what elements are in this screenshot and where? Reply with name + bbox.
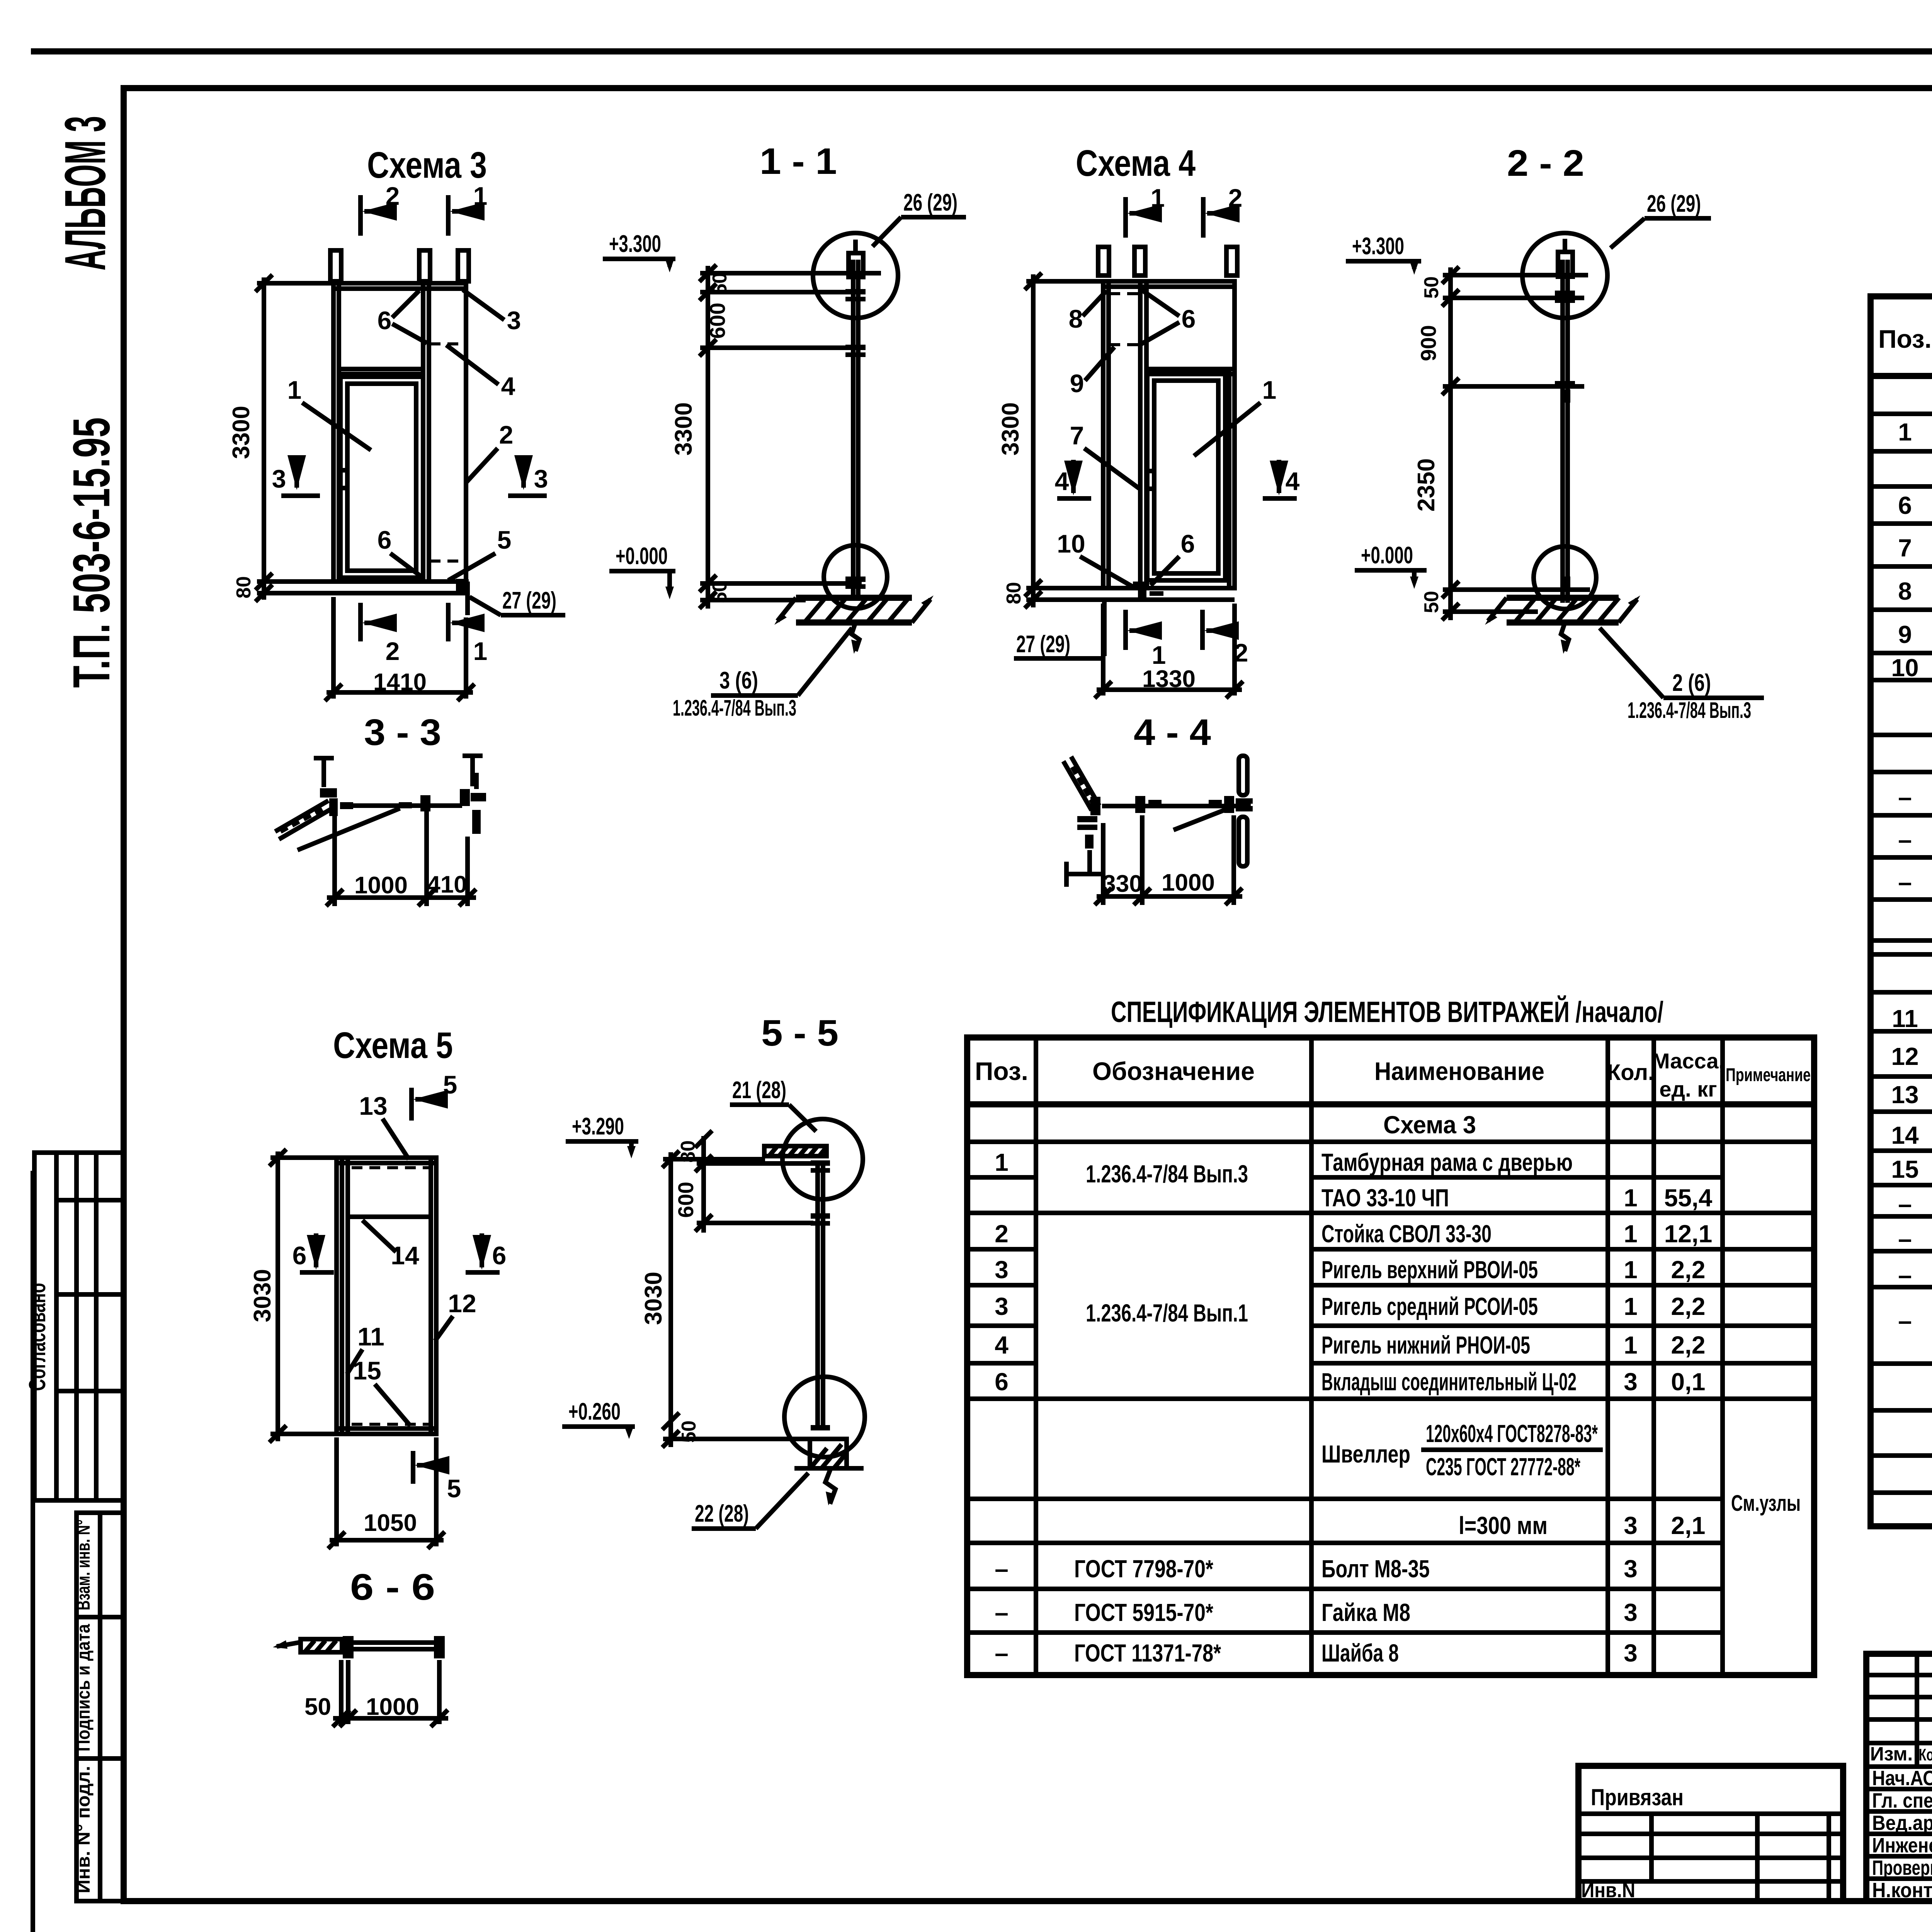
svg-text:1: 1 xyxy=(995,1148,1009,1176)
2-2 label 26 (29) xyxy=(1611,190,1711,248)
svg-text:+0.000: +0.000 xyxy=(616,543,668,570)
svg-text:330: 330 xyxy=(1102,871,1142,897)
3-3 rail line xyxy=(342,803,462,808)
Схема 4 frame outer xyxy=(1103,281,1235,588)
Схема 5 left dim 3030 xyxy=(249,1149,337,1442)
Схема 5 section mark 5 bottom xyxy=(413,1451,461,1503)
svg-text:+3.300: +3.300 xyxy=(609,231,661,257)
Схема 3 label 4 with leader xyxy=(446,345,515,400)
svg-text:80: 80 xyxy=(1003,582,1025,604)
5-5 clip mid xyxy=(811,1213,830,1219)
svg-text:3: 3 xyxy=(995,1293,1009,1320)
svg-text:10: 10 xyxy=(1057,529,1085,558)
Схема 4 label 9 with leader xyxy=(1070,347,1114,398)
svg-text:6 - 6: 6 - 6 xyxy=(350,1566,435,1608)
1-1 clip bottom xyxy=(845,577,866,582)
Инв. N° подл. box xyxy=(73,1759,124,1901)
Схема 3 section mark 1 bottom xyxy=(448,603,487,665)
svg-text:–: – xyxy=(1898,1225,1912,1253)
svg-text:5 - 5: 5 - 5 xyxy=(761,1012,838,1054)
Схема 4 sill lines xyxy=(1100,586,1235,590)
Схема 3 frame outer xyxy=(333,283,466,582)
1-1 node circle top xyxy=(813,233,898,318)
svg-text:4: 4 xyxy=(1286,467,1300,495)
Схема 4 stoika double line xyxy=(1138,281,1143,588)
Схема 3 label 5 with leader xyxy=(448,526,511,580)
svg-text:Масса,: Масса, xyxy=(1652,1049,1725,1073)
4-4 rail line xyxy=(1102,804,1251,808)
2-2 node circle top xyxy=(1522,233,1607,318)
Схема 5 frame inner lines xyxy=(340,1158,344,1434)
Схема 4 section mark 2 top xyxy=(1203,184,1242,238)
1-1 dimension line xyxy=(670,265,881,609)
svg-text:Швеллер: Швеллер xyxy=(1321,1440,1410,1468)
Схема 3 anchor tab right xyxy=(458,250,469,281)
svg-text:3: 3 xyxy=(1624,1512,1638,1539)
Схема 4 label 1 with leader xyxy=(1194,376,1276,456)
svg-text:7: 7 xyxy=(1070,421,1084,450)
svg-text:2: 2 xyxy=(386,637,400,665)
1-1 mullion xyxy=(849,240,863,598)
Схема 4 section mark 1 top xyxy=(1126,184,1165,238)
svg-text:Изм.: Изм. xyxy=(1870,1743,1913,1765)
Схема 4 hidden dashed top xyxy=(1109,292,1139,295)
svg-text:2,2: 2,2 xyxy=(1671,1293,1706,1320)
middle table row lines xyxy=(967,1142,1814,1633)
svg-text:3: 3 xyxy=(1624,1555,1638,1583)
Схема 3 label 27 (29) xyxy=(469,587,565,615)
signature table header xyxy=(1870,1743,1932,1765)
Схема 5 label 15 with leader xyxy=(353,1356,410,1426)
Схема 3 label 2 with leader xyxy=(466,420,513,483)
svg-text:3 (6): 3 (6) xyxy=(719,667,758,694)
svg-text:6: 6 xyxy=(1898,492,1912,519)
svg-text:6: 6 xyxy=(492,1241,507,1270)
svg-text:50: 50 xyxy=(1420,591,1443,613)
svg-text:1.236.4-7/84 Вып.1: 1.236.4-7/84 Вып.1 xyxy=(1086,1299,1248,1327)
Схема 3 stoika double line xyxy=(421,283,425,582)
Схема 3 left dim 3300/80 xyxy=(228,275,333,602)
Схема 4 frame inner lines xyxy=(1106,281,1111,588)
svg-text:Подпись и дата: Подпись и дата xyxy=(73,1624,94,1752)
2-2 elevation +3.300 xyxy=(1346,233,1421,275)
4-4 left connector xyxy=(1077,797,1100,849)
Схема 3 bottom dim 1410 xyxy=(325,597,474,701)
Согласовано stamp grid xyxy=(24,1153,124,1500)
svg-text:0,1: 0,1 xyxy=(1671,1368,1706,1396)
svg-text:СПЕЦИФИКАЦИЯ ЭЛЕМЕНТОВ ВИТРА: СПЕЦИФИКАЦИЯ ЭЛЕМЕНТОВ ВИТРАЖЕЙ /начало/ xyxy=(1111,995,1663,1029)
svg-text:4: 4 xyxy=(501,372,515,400)
right table Уголок fraction xyxy=(1898,1295,1932,1357)
Схема 3 anchor tab left xyxy=(330,250,341,281)
svg-text:3 - 3: 3 - 3 xyxy=(364,712,441,753)
Схема 5 section mark 5 top xyxy=(412,1070,457,1121)
svg-text:+3.290: +3.290 xyxy=(572,1113,624,1140)
Схема 5 hidden dashed bottom xyxy=(352,1423,430,1426)
svg-text:50: 50 xyxy=(709,581,731,603)
Схема 3 transom xyxy=(339,367,423,371)
svg-text:2: 2 xyxy=(386,182,400,210)
svg-text:4 - 4: 4 - 4 xyxy=(1134,712,1211,753)
svg-text:–: – xyxy=(1898,783,1912,811)
svg-text:13: 13 xyxy=(1891,1081,1918,1109)
svg-text:3: 3 xyxy=(534,464,548,493)
Схема 3 anchor tab middle xyxy=(419,250,430,281)
svg-text:Наименование: Наименование xyxy=(1374,1057,1544,1085)
svg-text:Вед.арх.: Вед.арх. xyxy=(1872,1811,1932,1835)
Схема 3 label 6 bottom with leader xyxy=(378,526,421,577)
Схема 3 frame inner lines xyxy=(337,283,341,582)
Схема 5 transom xyxy=(348,1214,431,1219)
Схема 4 label 10 with leader xyxy=(1057,529,1135,588)
svg-text:1330: 1330 xyxy=(1142,666,1196,692)
svg-text:8: 8 xyxy=(1898,577,1912,605)
Схема 3 label 1 with leader xyxy=(287,376,371,450)
svg-text:Схема 5: Схема 5 xyxy=(333,1025,453,1066)
svg-text:Вкладыш соединительный Ц-02: Вкладыш соединительный Ц-02 xyxy=(1321,1368,1577,1396)
svg-text:3: 3 xyxy=(272,464,286,493)
svg-text:С235 ГОСТ 27772-88*: С235 ГОСТ 27772-88* xyxy=(1426,1453,1580,1481)
svg-text:Т.П. 503-6-15.95: Т.П. 503-6-15.95 xyxy=(62,417,121,688)
5-5 elevation +3.290 xyxy=(566,1113,638,1158)
svg-text:2,2: 2,2 xyxy=(1671,1256,1706,1284)
5-5 label 22 (28) xyxy=(692,1473,808,1529)
Схема 3 section mark 1 top xyxy=(448,182,487,236)
6-6 rail double line xyxy=(354,1640,434,1645)
Схема 4 bottom dim 1330 xyxy=(1095,604,1243,698)
4-4 nashel'nik capsule bottom xyxy=(1239,817,1247,866)
svg-text:–: – xyxy=(995,1639,1009,1667)
svg-text:1: 1 xyxy=(1624,1184,1638,1212)
svg-text:АЛЬБОМ 3: АЛЬБОМ 3 xyxy=(53,116,117,270)
svg-text:2: 2 xyxy=(499,420,514,449)
svg-text:3300: 3300 xyxy=(670,402,697,456)
svg-text:ГОСТ 7798-70*: ГОСТ 7798-70* xyxy=(1074,1555,1213,1583)
svg-text:55,4: 55,4 xyxy=(1664,1184,1713,1212)
3-3 leader xyxy=(298,808,400,850)
Схема 4 transom xyxy=(1146,367,1235,371)
svg-text:l=300 мм: l=300 мм xyxy=(1459,1512,1548,1539)
svg-text:1: 1 xyxy=(1262,376,1277,404)
Схема 5 hidden dashed top xyxy=(352,1166,430,1169)
5-5 top channel hatched xyxy=(764,1146,827,1156)
svg-text:Н.контр.: Н.контр. xyxy=(1872,1879,1932,1902)
svg-text:13: 13 xyxy=(359,1092,387,1120)
svg-text:3: 3 xyxy=(1624,1639,1638,1667)
svg-text:120x60x4 ГОСТ8278-83*: 120x60x4 ГОСТ8278-83* xyxy=(1426,1420,1598,1447)
svg-text:+0.000: +0.000 xyxy=(1361,542,1413,569)
Схема 3 section mark 2 top xyxy=(361,182,400,236)
svg-text:Согласовано: Согласовано xyxy=(24,1283,50,1391)
svg-text:9: 9 xyxy=(1898,621,1912,648)
3-3 middle clip xyxy=(399,795,430,811)
svg-text:5: 5 xyxy=(443,1070,457,1099)
4-4 nashel'nik capsule top xyxy=(1239,756,1247,795)
Схема 3 view mark 3 right xyxy=(508,458,548,496)
svg-text:12,1: 12,1 xyxy=(1664,1220,1713,1248)
svg-text:8: 8 xyxy=(1069,304,1083,333)
svg-text:410: 410 xyxy=(427,871,467,898)
Схема 5 label 12 with leader xyxy=(435,1289,476,1341)
svg-text:2 - 2: 2 - 2 xyxy=(1507,143,1584,184)
Схема 4 label 7 with leader xyxy=(1070,421,1139,488)
svg-text:1: 1 xyxy=(1624,1293,1638,1320)
Схема 4 label 27 (29) xyxy=(1014,631,1105,658)
svg-text:26 (29): 26 (29) xyxy=(903,189,957,216)
svg-text:6: 6 xyxy=(1181,529,1195,558)
5-5 label 21 (28) xyxy=(730,1077,816,1131)
svg-text:–: – xyxy=(1898,1190,1912,1218)
svg-text:Ригель верхний РВОИ-05: Ригель верхний РВОИ-05 xyxy=(1321,1256,1538,1284)
Схема 4 door handle xyxy=(1147,471,1154,489)
Схема 3 hidden dashed top xyxy=(430,342,461,345)
svg-text:–: – xyxy=(995,1599,1009,1626)
svg-text:Кол.уч: Кол.уч xyxy=(1919,1745,1932,1764)
svg-text:1.236.4-7/84 Вып.3: 1.236.4-7/84 Вып.3 xyxy=(1086,1160,1248,1188)
Схема 3 hidden dashed bottom xyxy=(430,560,461,563)
svg-text:5: 5 xyxy=(447,1474,461,1503)
2-2 label 2 (6) xyxy=(1600,628,1764,723)
svg-text:Схема 3: Схема 3 xyxy=(367,145,487,186)
middle table Швеллер fraction xyxy=(1321,1420,1603,1481)
svg-text:ТАО 33-10 ЧП: ТАО 33-10 ЧП xyxy=(1321,1184,1449,1212)
svg-text:27 (29): 27 (29) xyxy=(502,587,556,614)
svg-text:80: 80 xyxy=(677,1140,699,1163)
svg-text:600: 600 xyxy=(673,1182,698,1218)
svg-text:1: 1 xyxy=(1624,1220,1638,1248)
right table row lines schema4 xyxy=(1871,414,1932,954)
6-6 right clip xyxy=(434,1636,445,1658)
5-5 secondary dim 80 600 xyxy=(673,1131,813,1233)
Схема 5 bottom dim 1050 xyxy=(328,1437,445,1549)
svg-text:6: 6 xyxy=(995,1368,1009,1396)
right table outer border xyxy=(1871,296,1932,1526)
outer sheet left line (lower part) xyxy=(31,1171,35,1932)
svg-text:1000: 1000 xyxy=(354,872,408,899)
svg-text:14: 14 xyxy=(1891,1121,1919,1149)
svg-text:1: 1 xyxy=(1624,1331,1638,1359)
svg-text:Обозначение: Обозначение xyxy=(1092,1057,1255,1085)
svg-text:Ригель средний РСОИ-05: Ригель средний РСОИ-05 xyxy=(1321,1293,1538,1320)
5-5 main dim 3030 xyxy=(640,1151,811,1447)
svg-text:6: 6 xyxy=(378,306,392,335)
5-5 clip top xyxy=(811,1160,830,1166)
Схема 4 label 6 bottom with leader xyxy=(1151,529,1195,585)
Схема 5 label 11 with leader xyxy=(347,1322,384,1374)
svg-text:1: 1 xyxy=(473,182,488,210)
2-2 clip bottom xyxy=(1560,577,1570,590)
svg-text:См.узлы: См.узлы xyxy=(1731,1491,1801,1516)
svg-text:900: 900 xyxy=(1416,325,1440,361)
4-4 dims 330 1000 xyxy=(1095,815,1242,905)
svg-text:1: 1 xyxy=(287,376,302,404)
2-2 clip at 50 xyxy=(1555,291,1575,296)
1-1 node circle bottom xyxy=(824,545,887,609)
Схема 4 view mark 4 left xyxy=(1055,460,1091,498)
5-5 elevation +0.260 xyxy=(562,1398,635,1439)
svg-text:3300: 3300 xyxy=(228,406,255,459)
svg-text:2: 2 xyxy=(995,1220,1009,1248)
svg-text:5: 5 xyxy=(497,526,512,554)
5-5 foundation hatched xyxy=(794,1439,864,1505)
6-6 dims 50 1000 xyxy=(304,1660,448,1727)
svg-text:3: 3 xyxy=(507,306,521,335)
svg-text:–: – xyxy=(1898,1307,1912,1335)
svg-text:22 (28): 22 (28) xyxy=(695,1500,749,1527)
svg-text:50: 50 xyxy=(304,1694,331,1720)
svg-text:1 - 1: 1 - 1 xyxy=(760,141,837,182)
svg-text:2: 2 xyxy=(1234,638,1248,667)
svg-text:11: 11 xyxy=(1892,1005,1918,1032)
svg-text:3: 3 xyxy=(995,1256,1009,1284)
svg-text:6: 6 xyxy=(293,1241,307,1270)
1-1 clip at 600 xyxy=(845,345,866,350)
svg-text:14: 14 xyxy=(391,1241,419,1270)
svg-text:Нач.АСО: Нач.АСО xyxy=(1872,1767,1932,1790)
5-5 clip bottom xyxy=(811,1425,830,1430)
svg-text:1.236.4-7/84 Вып.3: 1.236.4-7/84 Вып.3 xyxy=(673,696,796,721)
svg-text:26 (29): 26 (29) xyxy=(1647,190,1701,217)
Схема 4 label 6 with leaders xyxy=(1141,290,1196,344)
right table row lines schema5 xyxy=(1871,992,1932,1493)
middle table column lines xyxy=(1036,1037,1723,1675)
6-6 left clip xyxy=(343,1636,354,1658)
svg-text:ед. кг: ед. кг xyxy=(1659,1077,1717,1101)
svg-text:1: 1 xyxy=(473,637,488,665)
svg-text:1000: 1000 xyxy=(366,1694,419,1720)
svg-text:2350: 2350 xyxy=(1413,458,1440,512)
middle table outer border xyxy=(967,1037,1814,1675)
1-1 foundation hatched xyxy=(774,595,934,654)
Схема 5 label 14 with leader xyxy=(362,1220,419,1270)
svg-text:Ригель нижний РНОИ-05: Ригель нижний РНОИ-05 xyxy=(1321,1331,1530,1359)
Схема 4 left dim 3300/80 xyxy=(997,273,1103,608)
svg-text:2,2: 2,2 xyxy=(1671,1331,1706,1359)
svg-text:3: 3 xyxy=(1624,1599,1638,1626)
3-3 section flag left xyxy=(314,757,334,787)
svg-text:–: – xyxy=(1898,1261,1912,1289)
2-2 foundation hatched xyxy=(1485,595,1640,654)
svg-text:Схема 3: Схема 3 xyxy=(1383,1111,1476,1139)
svg-text:Примечание: Примечание xyxy=(1726,1065,1811,1085)
3-3 diagonal channel strip xyxy=(275,801,332,839)
svg-text:50: 50 xyxy=(1420,276,1443,299)
svg-text:ГОСТ 11371-78*: ГОСТ 11371-78* xyxy=(1074,1639,1221,1667)
svg-text:10: 10 xyxy=(1891,654,1918,682)
Схема 3 door leaf xyxy=(340,377,423,578)
svg-text:Привязан: Привязан xyxy=(1591,1784,1684,1810)
svg-text:1000: 1000 xyxy=(1162,869,1215,896)
Схема 3 sill lines xyxy=(333,579,469,584)
Схема 4 section mark 2 bottom xyxy=(1202,610,1248,667)
svg-text:6: 6 xyxy=(1182,304,1196,333)
svg-text:3030: 3030 xyxy=(249,1269,276,1322)
3-3 dims 1000 410 xyxy=(326,811,476,906)
Схема 3 view mark 3 left xyxy=(272,458,320,496)
Схема 3 label 3 with leader xyxy=(463,290,521,335)
svg-text:7: 7 xyxy=(1898,534,1912,562)
Схема 4 view mark 4 right xyxy=(1263,460,1300,498)
svg-text:3300: 3300 xyxy=(997,402,1024,456)
Схема 4 anchor tab left xyxy=(1098,247,1109,276)
svg-text:Гайка М8: Гайка М8 xyxy=(1321,1599,1410,1626)
svg-text:Кол.: Кол. xyxy=(1607,1060,1654,1085)
svg-text:9: 9 xyxy=(1070,369,1084,398)
1-1 clip at 50 xyxy=(845,289,866,294)
svg-text:50: 50 xyxy=(678,1420,700,1443)
1-1 label 3 (6) xyxy=(673,628,852,721)
5-5 node circle top xyxy=(782,1119,863,1199)
svg-text:12: 12 xyxy=(1891,1043,1918,1070)
svg-text:1: 1 xyxy=(1898,418,1912,446)
svg-text:Тамбурная рама с дверью: Тамбурная рама с дверью xyxy=(1321,1148,1573,1176)
svg-text:Взам. инв. N°: Взам. инв. N° xyxy=(73,1520,94,1611)
svg-text:3030: 3030 xyxy=(640,1272,667,1325)
svg-text:Гл. спец.: Гл. спец. xyxy=(1872,1789,1932,1812)
3-3 section flag right xyxy=(463,754,483,786)
5-5 node circle bottom xyxy=(784,1377,865,1457)
3-3 left connector xyxy=(320,788,353,816)
svg-text:1410: 1410 xyxy=(373,669,427,696)
svg-text:1: 1 xyxy=(1152,641,1166,669)
2-2 clip at 900 xyxy=(1555,381,1575,386)
4-4 right connector xyxy=(1209,796,1253,813)
2-2 elevation +0.000 xyxy=(1355,542,1427,589)
svg-text:80: 80 xyxy=(233,576,255,599)
Схема 4 anchor tab mid xyxy=(1134,247,1145,276)
svg-text:12: 12 xyxy=(448,1289,476,1318)
Схема 5 view mark 6 left xyxy=(293,1233,334,1272)
svg-text:ГОСТ 5915-70*: ГОСТ 5915-70* xyxy=(1074,1599,1213,1626)
svg-text:Схема 4: Схема 4 xyxy=(1076,143,1196,184)
svg-text:–: – xyxy=(995,1555,1009,1583)
Схема 5 label 13 with leader xyxy=(359,1092,409,1159)
svg-text:Инв.N: Инв.N xyxy=(1581,1879,1635,1902)
svg-text:1: 1 xyxy=(1624,1256,1638,1284)
svg-text:27 (29): 27 (29) xyxy=(1016,631,1070,658)
Схема 3 label 6 top with leaders xyxy=(378,291,427,343)
svg-text:Поз.: Поз. xyxy=(975,1057,1028,1085)
Схема 5 frame outer xyxy=(337,1158,436,1434)
2-2 node circle bottom xyxy=(1534,546,1596,609)
4-4 middle clip xyxy=(1135,796,1162,813)
svg-text:2 (6): 2 (6) xyxy=(1672,670,1711,696)
Схема 5 view mark 6 right xyxy=(466,1233,506,1272)
outer sheet top line xyxy=(31,48,1932,54)
svg-text:+0.260: +0.260 xyxy=(568,1398,621,1425)
svg-text:1050: 1050 xyxy=(364,1510,417,1536)
svg-text:4: 4 xyxy=(1055,467,1069,495)
Схема 4 section mark 1 bottom xyxy=(1126,610,1166,669)
4-4 left anchor symbol xyxy=(1066,850,1103,887)
3-3 right connector xyxy=(460,773,486,834)
Схема 3 section mark 2 bottom xyxy=(361,603,400,665)
svg-text:15: 15 xyxy=(353,1356,381,1385)
6-6 channel strip xyxy=(273,1639,342,1652)
1-1 elevation +3.300 xyxy=(603,231,675,272)
svg-text:Инв. N° подл.: Инв. N° подл. xyxy=(73,1766,94,1893)
svg-text:600: 600 xyxy=(705,303,730,338)
Подпись и дата box xyxy=(73,1617,124,1759)
2-2 dimension line xyxy=(1413,267,1590,620)
svg-text:+3.300: +3.300 xyxy=(1352,233,1404,260)
signature table box xyxy=(1866,1654,1932,1901)
right table header line xyxy=(1871,373,1932,379)
svg-text:Поз.: Поз. xyxy=(1878,325,1932,353)
svg-text:1.236.4-7/84 Вып.3: 1.236.4-7/84 Вып.3 xyxy=(1628,698,1751,723)
svg-text:Болт М8-35: Болт М8-35 xyxy=(1321,1555,1430,1583)
svg-text:1: 1 xyxy=(1151,184,1165,212)
